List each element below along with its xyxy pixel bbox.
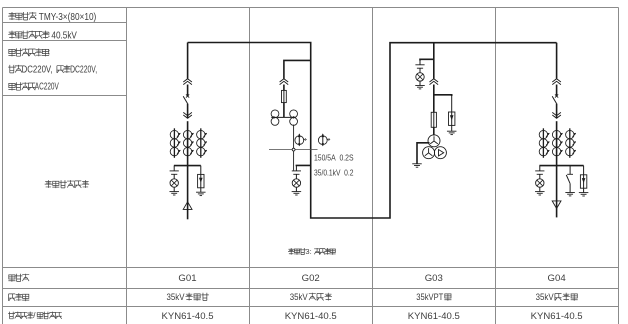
voltage transformer TV1 (two single-phase PTs) [271, 110, 298, 125]
wire G03 below contact [433, 85, 435, 113]
svg-text:G01: G01 [178, 273, 196, 284]
live-display device G03 with lamp [419, 60, 421, 65]
drawout contact G01 lower [183, 115, 192, 118]
svg-text:35kV: 35kV [167, 292, 185, 303]
svg-text:G03: G03 [425, 273, 443, 284]
svg-text:KYN61-40.5: KYN61-40.5 [408, 311, 460, 322]
svg-text:DC220V,: DC220V, [22, 64, 53, 75]
circuit breaker QF2 [555, 94, 558, 97]
wire G01 to CT [187, 121, 189, 165]
wire G04 cable stem [556, 166, 558, 218]
wire G02 live-display link to bus [296, 164, 310, 167]
label cabinet purpose G02 [290, 292, 332, 303]
fuse FU1 (metering) [282, 90, 287, 102]
wire G04 to CT [556, 121, 558, 165]
wire G02 PT secondary down [293, 125, 295, 150]
surge arrester F1 [200, 166, 202, 175]
svg-text:35kV: 35kV [290, 292, 308, 303]
bus main 35kV busbar run [188, 43, 557, 219]
label metering point note [288, 247, 336, 256]
svg-text:KYN61-40.5: KYN61-40.5 [162, 311, 214, 322]
drawout contact G04 upper [552, 79, 561, 82]
wire G03 split to arrester [434, 95, 452, 96]
svg-text:KYN61-40.5: KYN61-40.5 [285, 311, 337, 322]
wire G02 to fuse [283, 85, 285, 91]
drawout contact G04 lower [552, 115, 561, 118]
svg-text:AC220V: AC220V [35, 82, 59, 93]
svg-text:KYN61-40.5: KYN61-40.5 [531, 311, 583, 322]
wire G01 cable stem [187, 166, 189, 220]
label busbar spec row [8, 12, 96, 23]
wire G01 between contact and breaker [187, 85, 189, 96]
svg-text:TMY-3×(80×10): TMY-3×(80×10) [39, 12, 97, 23]
svg-text:35kV: 35kV [536, 292, 554, 303]
current transformer TA2 (3x3) [542, 128, 544, 158]
ground G04 earthing switch [565, 192, 575, 194]
wire metering secondary horizontal [269, 149, 318, 151]
cable termination G04 (outgoing) [552, 201, 561, 209]
drawout contact G02 [280, 79, 289, 82]
wire node to live-display [293, 151, 295, 170]
label primary voltage row [8, 31, 77, 42]
svg-text:40.5kV: 40.5kV [51, 31, 77, 42]
live-display device G01 with lamp [173, 166, 175, 171]
voltage transformer TV2 (3-winding PT) [423, 135, 447, 159]
wire G03 riser from bus [433, 43, 435, 79]
label cabinet purpose G01 [167, 292, 209, 303]
svg-text:150/5A 0.2S: 150/5A 0.2S [314, 154, 354, 163]
svg-text:DC220V,: DC220V, [70, 64, 97, 75]
wire G02 fuse to PT [283, 103, 285, 118]
label secondary voltage rows [8, 48, 97, 92]
wire G03 PT neutral to ground [417, 143, 430, 164]
label scheme model row [8, 311, 62, 320]
drawout contact G01 upper [183, 79, 192, 82]
current transformer TA1 (3x3) [173, 128, 175, 158]
circuit breaker QF1 [186, 94, 189, 97]
label scheme diagram cell [45, 180, 89, 188]
svg-text:35kVPT: 35kVPT [416, 292, 443, 303]
wire G04 below breaker [556, 104, 558, 119]
svg-text:G04: G04 [548, 273, 567, 284]
wire G03 fuse to PT [433, 127, 435, 135]
wire G04 riser [556, 43, 558, 79]
wire G02 tap from bus [284, 60, 311, 78]
label cabinet number row [8, 274, 29, 282]
live-display device G02 with lamp [295, 166, 297, 171]
drawout contact G03 [430, 79, 439, 82]
ground G03 PT neutral [412, 163, 422, 165]
metering CT symbol 150/5A [295, 136, 304, 145]
wire G04 between contact and breaker [556, 85, 558, 96]
live-display device G04 with lamp [539, 166, 541, 171]
svg-text:G02: G02 [302, 273, 320, 284]
wire G01 branch bar [174, 165, 201, 167]
wire G03 tap to live-display [420, 59, 434, 60]
node metering point [292, 148, 295, 151]
cable termination G01 (incoming) [183, 202, 192, 210]
fuse FU2 [431, 112, 436, 127]
wire G01 below breaker [187, 104, 189, 119]
label cabinet purpose G04 [536, 292, 578, 303]
wire G04 branch bar [539, 165, 583, 167]
svg-text:3:: 3: [305, 247, 311, 256]
surge arrester F3 [583, 166, 585, 175]
label cabinet purpose row [9, 293, 30, 301]
svg-text:35/0.1kV 0.2: 35/0.1kV 0.2 [314, 169, 354, 178]
earthing switch QS1 [566, 166, 573, 193]
surge arrester F2 [451, 95, 453, 112]
metering PT symbol 35/0.1kV [318, 136, 327, 145]
label cabinet purpose G03 [416, 292, 451, 303]
wire G01 riser [187, 43, 189, 79]
